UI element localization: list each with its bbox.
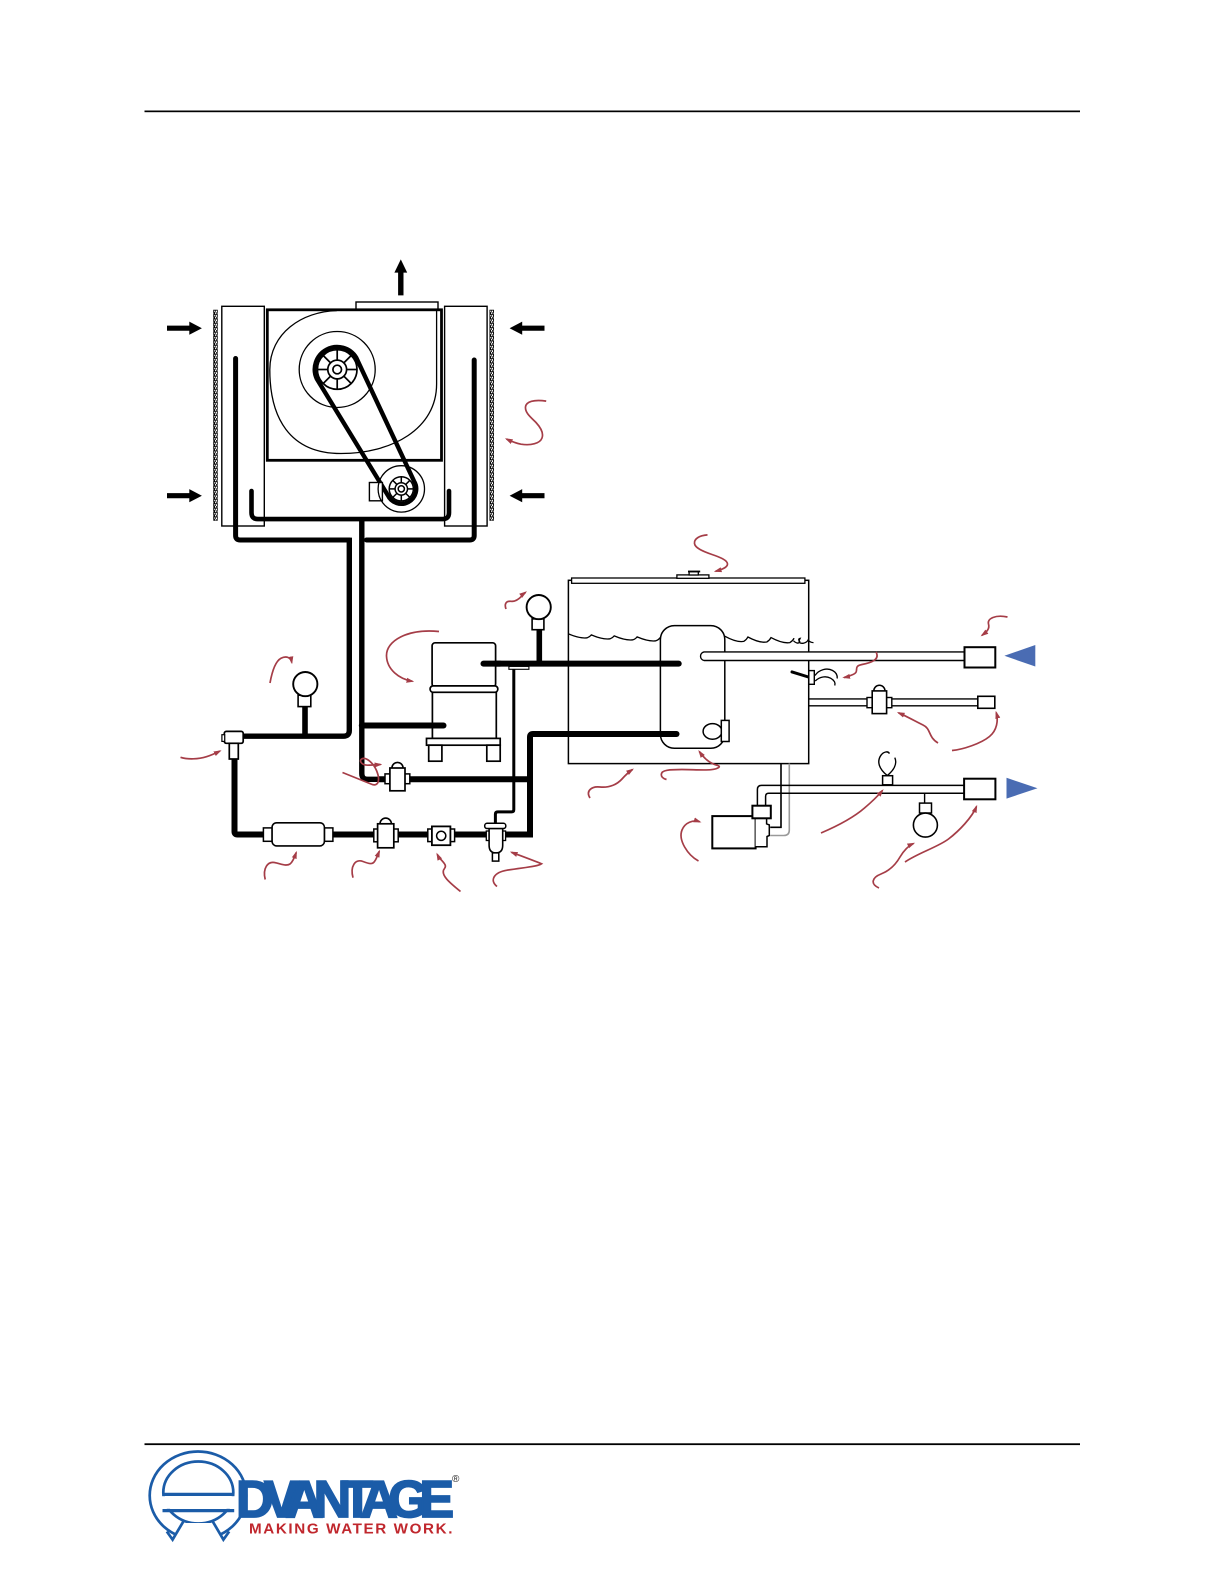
tower pump base	[427, 738, 501, 745]
city water make-up pipe	[809, 699, 978, 706]
air inlet arrow right bottom	[510, 489, 545, 502]
tower pump feet	[429, 745, 442, 761]
fan scroll volute	[270, 311, 437, 454]
air inlet arrow left bottom	[167, 489, 202, 502]
left gauge (pressure gauge)	[293, 672, 317, 696]
reservoir tank	[568, 580, 808, 763]
city water valve	[867, 685, 892, 713]
right inlet louver (hatched strip)	[490, 310, 494, 521]
callout: tank	[588, 770, 632, 799]
tank vent cap	[677, 575, 709, 578]
tank gauge	[527, 595, 551, 619]
bottom rule	[145, 1443, 1081, 1445]
process return pipe (into standpipe)	[701, 652, 965, 661]
tower pump lower body	[432, 692, 496, 738]
pump discharge pipe to tower riser	[362, 723, 440, 729]
to-process coupling	[964, 779, 995, 800]
motor pulley shaft	[398, 486, 404, 492]
callout: tank vent cap	[694, 535, 727, 571]
fan housing box	[267, 310, 441, 461]
suction pipe union plate	[509, 666, 529, 669]
tower left panel	[222, 306, 264, 526]
y-strainer / pressure regulator	[485, 823, 506, 861]
callout: shutoff valve	[352, 851, 379, 878]
tank gauge stem	[536, 630, 542, 661]
top rule	[145, 111, 1081, 113]
make-up feed line (thin)	[495, 669, 513, 823]
tank drain to process pump (shadowed pipe)	[770, 764, 781, 828]
air discharge arrow (up)	[394, 259, 407, 295]
air inlet arrow right top	[510, 322, 545, 335]
motor pulley rim	[389, 477, 413, 501]
callout: supply probe	[821, 791, 883, 834]
svg-text:®: ®	[452, 1474, 460, 1485]
callout: supply gauge	[873, 844, 913, 889]
tank gauge fitting	[532, 619, 544, 630]
fan motor	[369, 483, 382, 501]
fan hub	[328, 360, 347, 379]
supply gauge branch	[924, 793, 926, 803]
tower drain tee fitting	[224, 731, 243, 743]
left gauge fitting	[298, 695, 311, 706]
water line left	[568, 634, 660, 641]
process pump discharge flange	[752, 806, 770, 819]
callout: city coupling	[952, 713, 997, 751]
fan drive belt	[315, 347, 416, 504]
gravity return riser to tank	[530, 734, 677, 838]
svg-text:MAKING WATER WORK.: MAKING WATER WORK.	[249, 1521, 454, 1538]
motor pulley hub	[395, 483, 407, 495]
water line right	[725, 636, 814, 643]
callout: tank gauge	[505, 592, 525, 609]
tower right panel	[445, 306, 488, 526]
from-process coupling	[965, 647, 996, 667]
fan shaft	[333, 365, 342, 374]
callout: process pump	[681, 821, 700, 861]
tower pump upper body	[432, 643, 496, 687]
fan wheel spokes	[317, 350, 357, 390]
callout: tower pump	[386, 631, 439, 681]
callout: city valve	[899, 713, 939, 743]
standpipe weir (rounded box)	[660, 626, 724, 749]
to-process arrow (blue, right)	[1007, 778, 1038, 799]
process pump body	[712, 816, 755, 848]
city water inlet coupling	[978, 696, 995, 708]
callout: level probe	[844, 652, 877, 678]
tower pump band	[430, 686, 498, 692]
callout: to-process coupling	[905, 807, 977, 863]
in-line filter	[263, 823, 333, 846]
callout: from-process coupling	[982, 616, 1008, 635]
from-process arrow (blue, left)	[1004, 645, 1035, 667]
callout: cooling tower	[507, 400, 547, 444]
level sensor probe	[792, 672, 808, 677]
drain drop pipe	[235, 759, 534, 835]
bypass ball valve	[385, 762, 410, 790]
tower basin spray header (U)	[252, 491, 450, 519]
callout: check valve	[437, 854, 460, 891]
bypass line with ball valve	[378, 776, 530, 782]
tank lid	[572, 578, 805, 583]
air inlet arrow left top	[167, 322, 202, 335]
suction pipe end cap at pump	[484, 661, 501, 667]
callout: left gauge	[270, 657, 292, 683]
gravity return pipe end (inside standpipe)	[655, 731, 677, 737]
discharge pipe end cap at pump	[430, 723, 444, 729]
check valve	[428, 826, 455, 845]
callout: filter	[264, 853, 296, 880]
cooling tower discharge collar	[356, 302, 438, 310]
left inlet louver (hatched strip)	[214, 310, 218, 521]
callout: strainer	[493, 852, 541, 886]
callout: drain tee	[181, 751, 221, 759]
fan wheel rim	[317, 350, 357, 390]
Advantage logo: A horseshoe	[150, 1452, 247, 1543]
process supply pipe	[757, 785, 964, 805]
right panel spray pipe + collector	[367, 360, 475, 540]
callout: standpipe	[661, 752, 719, 780]
callout: bypass valve	[343, 758, 381, 784]
tower gravity drain downpipe (left)	[242, 538, 349, 737]
process pump end bell	[756, 818, 770, 847]
tower pump suction pipe from tank	[484, 661, 679, 667]
left panel spray pipe + collector	[236, 359, 350, 541]
temperature probe on supply	[883, 776, 893, 785]
shut-off ball valve	[374, 818, 398, 848]
fan outer circle	[299, 332, 375, 408]
motor pulley outer circle	[378, 466, 424, 512]
tower supply riser downpipe (right)	[362, 519, 380, 779]
gauge stem pipe (left gauge)	[302, 705, 308, 735]
float switch	[703, 724, 722, 740]
suction pipe end (inside standpipe)	[660, 661, 679, 667]
motor pulley spokes	[389, 477, 413, 501]
